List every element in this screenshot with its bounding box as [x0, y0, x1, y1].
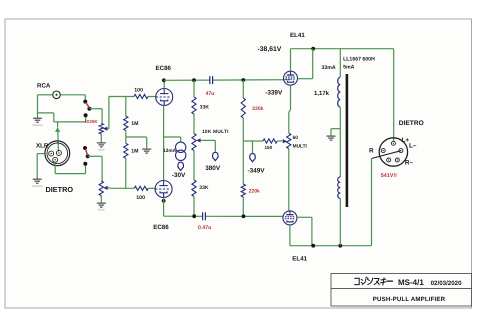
- svg-text:541V!!: 541V!!: [381, 173, 397, 179]
- svg-text:R: R: [369, 147, 374, 154]
- svg-text:5mA: 5mA: [343, 64, 354, 70]
- svg-text:RCA: RCA: [37, 83, 51, 90]
- svg-text:4X25K: 4X25K: [84, 119, 98, 124]
- svg-text:R–: R–: [405, 160, 414, 167]
- svg-text:150: 150: [265, 145, 273, 150]
- svg-text:380V: 380V: [205, 165, 221, 172]
- svg-text:13mA: 13mA: [163, 148, 177, 154]
- svg-text:0.47u: 0.47u: [198, 225, 211, 231]
- svg-text:MULTI: MULTI: [293, 144, 308, 150]
- svg-text:EC86: EC86: [153, 224, 169, 231]
- svg-text:PWRGND: PWRGND: [32, 185, 43, 188]
- svg-text:47u: 47u: [206, 91, 215, 97]
- svg-text:1,17k: 1,17k: [314, 90, 330, 97]
- svg-text:-38,61V: -38,61V: [258, 46, 282, 53]
- svg-text:33mA: 33mA: [322, 65, 336, 71]
- svg-text:L–: L–: [409, 143, 417, 150]
- svg-text:EL41: EL41: [290, 32, 305, 39]
- svg-text:AGND: AGND: [98, 149, 105, 152]
- svg-text:AGND: AGND: [98, 209, 105, 212]
- svg-text:LL1667 600H: LL1667 600H: [343, 57, 375, 63]
- svg-text:-349V: -349V: [248, 168, 266, 175]
- svg-text:DIETRO: DIETRO: [399, 120, 424, 127]
- svg-text:100: 100: [134, 87, 143, 93]
- svg-text:DIETRO: DIETRO: [46, 185, 74, 194]
- svg-text:10K MULTI: 10K MULTI: [202, 129, 229, 135]
- svg-text:1M: 1M: [131, 121, 138, 127]
- svg-text:-339V: -339V: [265, 90, 283, 97]
- svg-text:PWRGND: PWRGND: [32, 124, 43, 127]
- svg-text:EC86: EC86: [156, 65, 172, 72]
- svg-text:60: 60: [293, 135, 299, 141]
- svg-text:1M: 1M: [131, 149, 138, 155]
- svg-text:PUSH-PULL AMPLIFIER: PUSH-PULL AMPLIFIER: [373, 296, 446, 303]
- svg-text:-30V: -30V: [172, 172, 186, 179]
- svg-text:220k: 220k: [252, 106, 263, 112]
- svg-text:100: 100: [136, 195, 145, 201]
- svg-text:EL41: EL41: [292, 256, 307, 263]
- svg-text:33K: 33K: [199, 185, 209, 191]
- svg-text:220k: 220k: [249, 189, 260, 195]
- svg-text:MS-4/1: MS-4/1: [398, 278, 424, 287]
- svg-text:33K: 33K: [200, 105, 210, 111]
- svg-text:02/03/2020: 02/03/2020: [431, 280, 463, 287]
